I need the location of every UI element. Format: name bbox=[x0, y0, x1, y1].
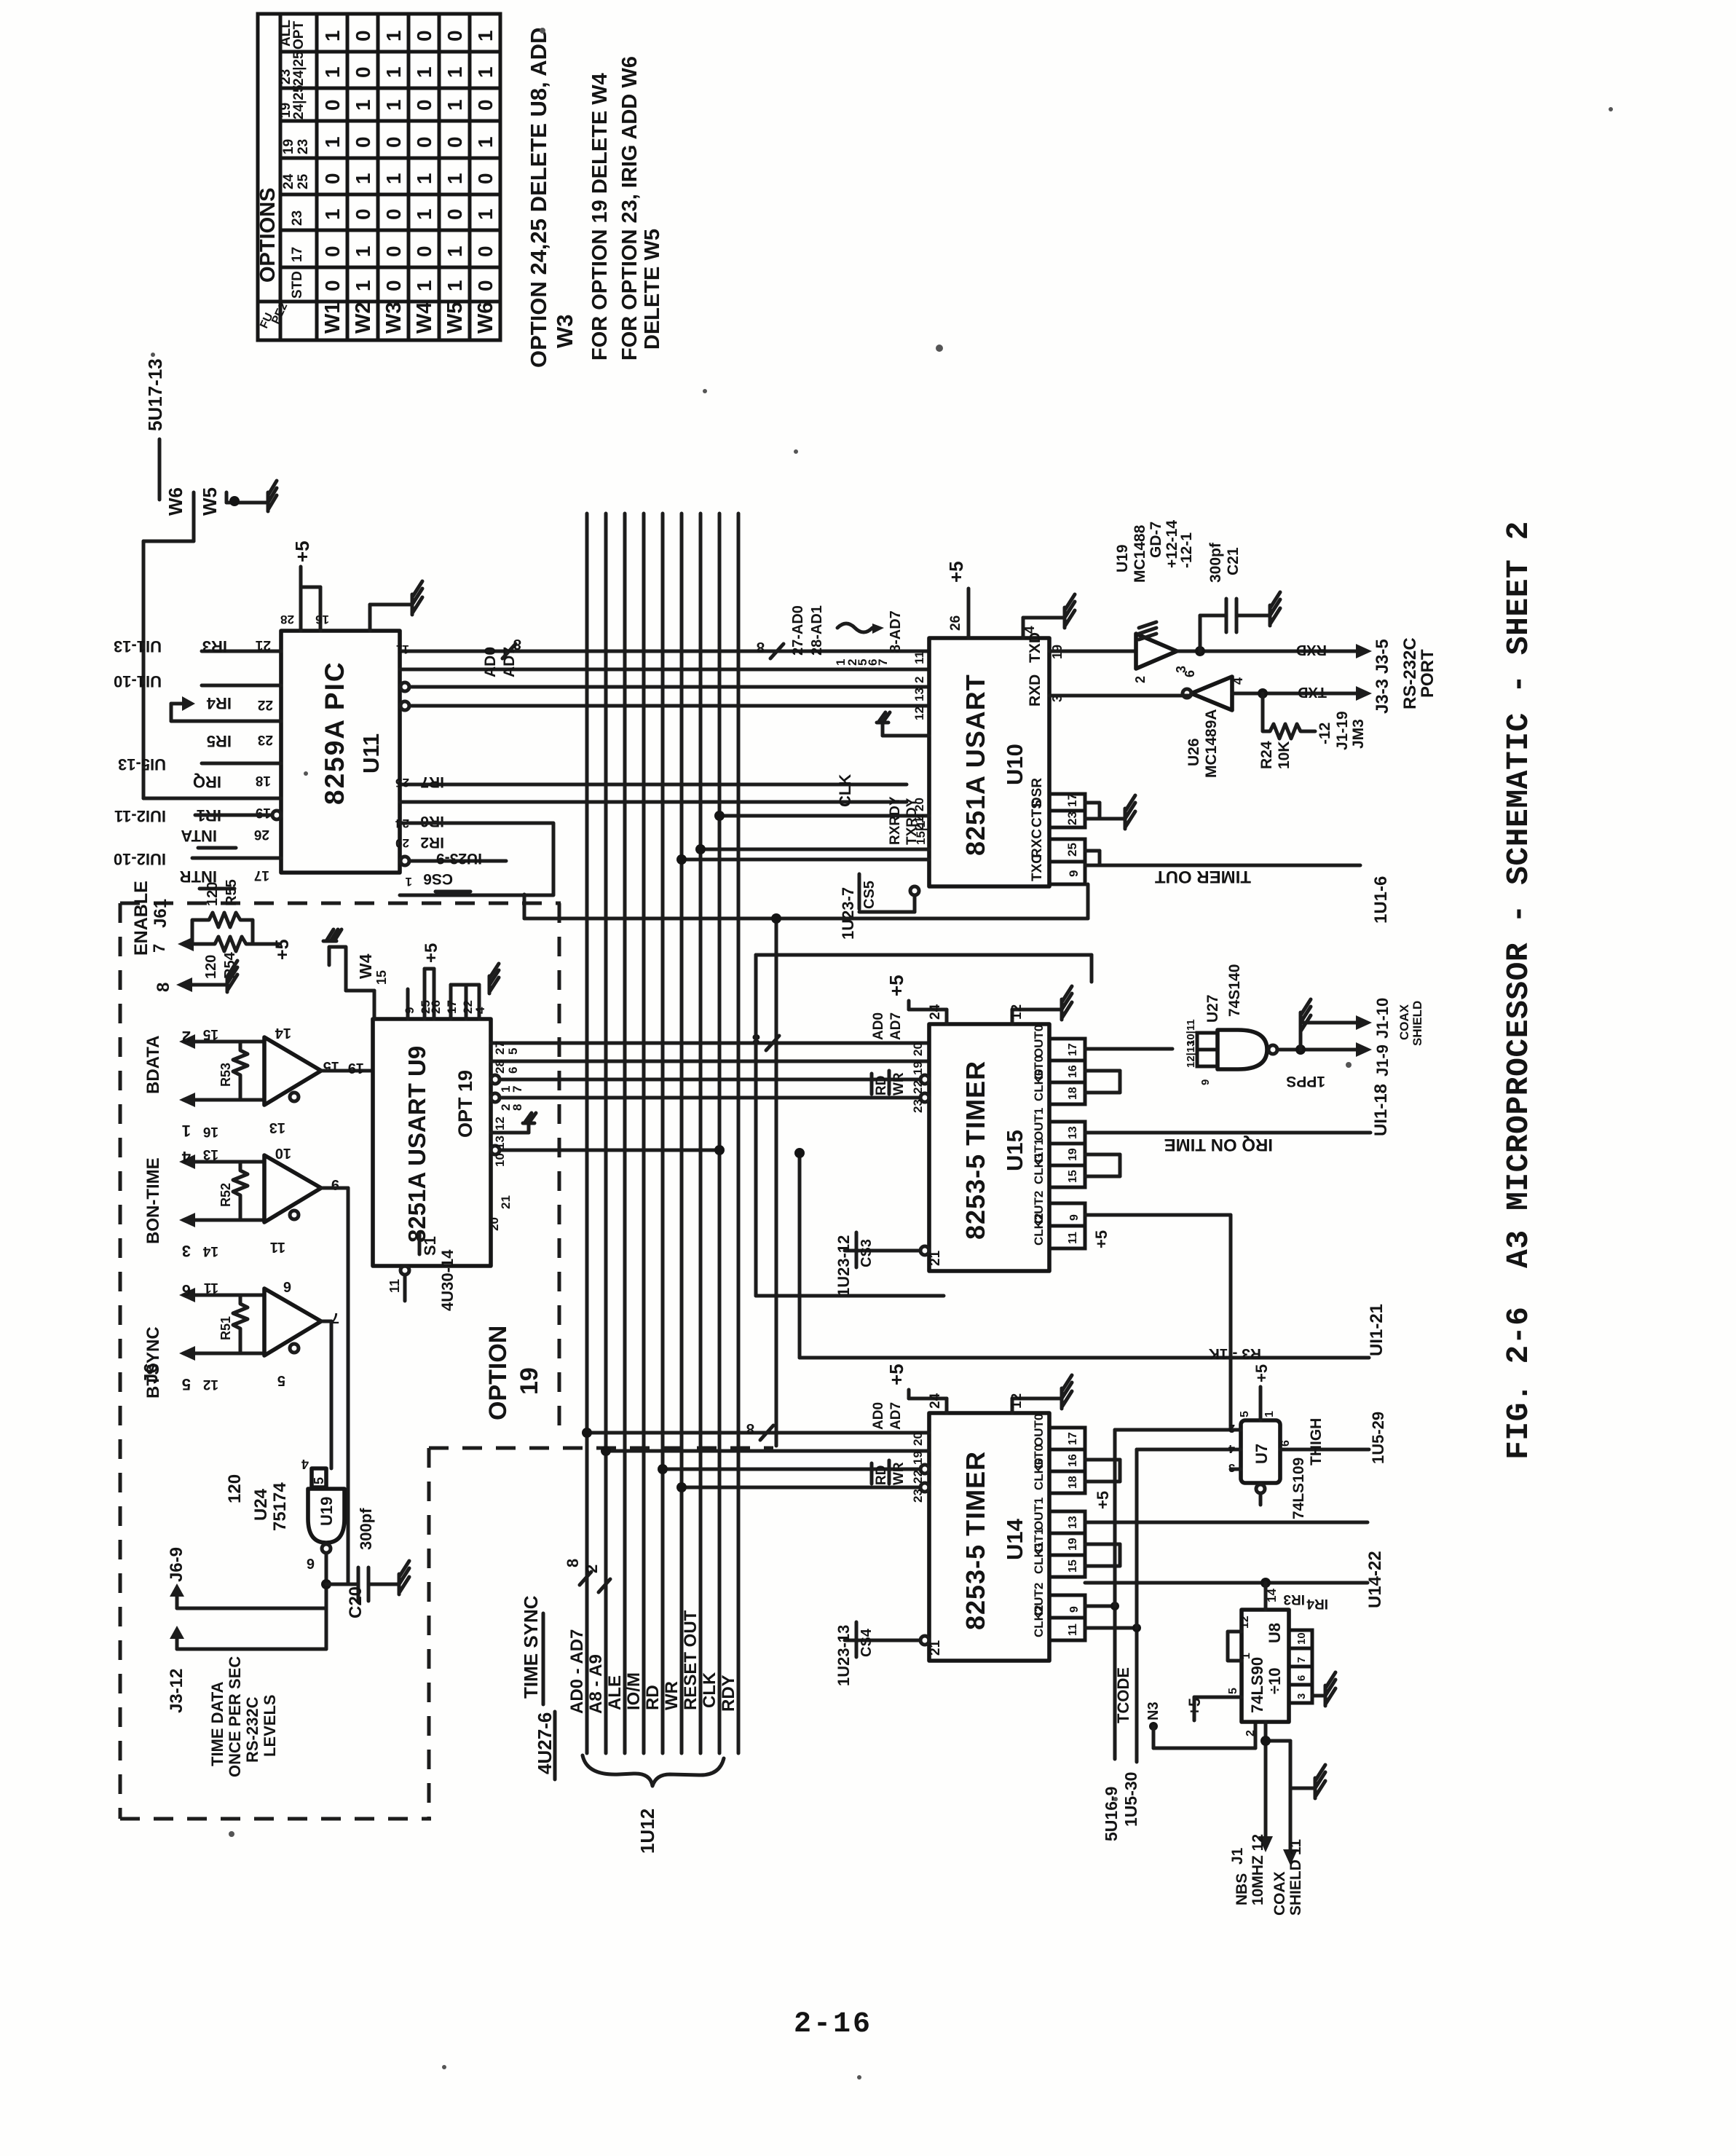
bus line AD0-AD7 bbox=[585, 514, 589, 1753]
wire +5 to U11 pins 28/16 bbox=[301, 567, 320, 631]
svg-text:1: 1 bbox=[382, 66, 405, 78]
J6 pin 5 arrow bbox=[179, 1346, 264, 1361]
svg-text:UI1-18: UI1-18 bbox=[1371, 1084, 1391, 1136]
note TIME DATA block bbox=[208, 1656, 279, 1777]
svg-text:OUT0: OUT0 bbox=[1032, 1414, 1046, 1447]
svg-text:4: 4 bbox=[301, 1457, 309, 1471]
svg-text:÷10: ÷10 bbox=[1266, 1667, 1284, 1694]
bubble U24b bbox=[290, 1211, 299, 1219]
svg-text:5: 5 bbox=[277, 1372, 285, 1388]
pin CS4 wire bbox=[845, 1636, 929, 1645]
svg-text:24: 24 bbox=[928, 1004, 943, 1020]
svg-text:1: 1 bbox=[321, 136, 344, 148]
svg-text:19: 19 bbox=[911, 1061, 925, 1075]
svg-text:26: 26 bbox=[429, 1000, 443, 1014]
svg-text:THIGH: THIGH bbox=[1308, 1418, 1325, 1465]
wire GT1 CLK1 loop bbox=[1085, 1544, 1120, 1566]
U8 right pin cells bbox=[1289, 1630, 1312, 1703]
svg-text:RS-232C: RS-232C bbox=[1400, 637, 1420, 709]
wire DSR CTS to ground bbox=[1085, 803, 1125, 819]
svg-text:0: 0 bbox=[382, 136, 405, 148]
wire RXC TXC loop down bbox=[524, 884, 1088, 918]
svg-text:22: 22 bbox=[258, 697, 273, 712]
svg-text:8253-5 TIMER: 8253-5 TIMER bbox=[960, 1061, 990, 1240]
svg-text:0: 0 bbox=[474, 173, 497, 184]
junction dot W5 bbox=[229, 496, 240, 506]
svg-text:16: 16 bbox=[203, 1124, 218, 1139]
junction bbox=[1295, 1044, 1306, 1055]
U14 right pin cells group2 bbox=[1032, 1583, 1085, 1640]
svg-text:+5: +5 bbox=[272, 939, 293, 960]
svg-text:U24: U24 bbox=[251, 1488, 271, 1521]
wire RXD from U26 buffer bbox=[1049, 694, 1190, 698]
svg-text:0: 0 bbox=[413, 99, 435, 111]
svg-text:1U12: 1U12 bbox=[636, 1809, 658, 1854]
svg-text:J1-9: J1-9 bbox=[1373, 1044, 1392, 1077]
svg-text:11: 11 bbox=[387, 1279, 402, 1293]
svg-text:14: 14 bbox=[275, 1025, 291, 1041]
J6 pin 6 arrow bbox=[179, 1288, 264, 1302]
svg-text:OUT0: OUT0 bbox=[1032, 1025, 1046, 1058]
labels J1 NBS 10MHZ 12 bbox=[1229, 1834, 1304, 1916]
svg-text:JM3: JM3 bbox=[1350, 719, 1367, 749]
svg-text:26: 26 bbox=[948, 615, 963, 631]
svg-text:0: 0 bbox=[443, 30, 466, 42]
wire IR2 loop bbox=[400, 823, 553, 895]
svg-text:11: 11 bbox=[203, 1280, 218, 1295]
bus line RD bbox=[661, 514, 665, 1753]
wire U7 out bbox=[1280, 1448, 1369, 1452]
svg-text:PORT: PORT bbox=[1418, 649, 1437, 698]
svg-text:+5: +5 bbox=[1252, 1364, 1271, 1382]
svg-text:U14: U14 bbox=[1002, 1518, 1027, 1560]
svg-text:W5: W5 bbox=[199, 487, 221, 516]
svg-text:6: 6 bbox=[283, 1278, 291, 1294]
svg-text:4: 4 bbox=[1228, 1442, 1235, 1455]
U15 right pin cells group1 bbox=[1032, 1108, 1085, 1187]
svg-text:CS5: CS5 bbox=[861, 881, 877, 909]
svg-text:7: 7 bbox=[1295, 1657, 1308, 1663]
buffer U19 MC1488 bbox=[1136, 634, 1177, 669]
svg-text:15: 15 bbox=[1067, 1559, 1079, 1573]
svg-text:OPTIONS: OPTIONS bbox=[256, 187, 280, 283]
wire GT1 CLK1 loop bbox=[1085, 1154, 1120, 1176]
svg-text:UI1-10: UI1-10 bbox=[114, 672, 162, 691]
svg-text:CLK0: CLK0 bbox=[1032, 1069, 1046, 1101]
U27 pin labels bbox=[1185, 1019, 1212, 1085]
svg-text:11: 11 bbox=[270, 1239, 285, 1255]
net CS4 label overlined bbox=[856, 1622, 875, 1657]
wire CLK to U10 pin 20 bbox=[719, 814, 929, 818]
svg-text:12: 12 bbox=[493, 1117, 507, 1130]
wire enable arrow bbox=[178, 937, 194, 951]
wire U24a out to U9 bbox=[321, 1069, 373, 1073]
svg-text:IUI2-11: IUI2-11 bbox=[114, 807, 166, 825]
svg-text:ONCE PER SEC: ONCE PER SEC bbox=[226, 1656, 244, 1777]
svg-text:19: 19 bbox=[1067, 1538, 1079, 1551]
svg-text:BON-TIME: BON-TIME bbox=[143, 1157, 163, 1244]
svg-text:74S140: 74S140 bbox=[1226, 964, 1243, 1017]
svg-text:19: 19 bbox=[516, 1367, 543, 1395]
wire U27 out to J1-9 bbox=[1277, 1048, 1356, 1052]
bubble U24c bbox=[290, 1344, 299, 1353]
svg-text:13: 13 bbox=[1067, 1516, 1079, 1529]
svg-text:8: 8 bbox=[746, 1420, 754, 1436]
svg-text:4U27-6: 4U27-6 bbox=[534, 1712, 556, 1774]
svg-text:J1-10: J1-10 bbox=[1373, 998, 1392, 1039]
junction dot bbox=[658, 1464, 668, 1474]
label COAX SHIELD bbox=[1397, 1001, 1424, 1046]
svg-text:A8 - A9: A8 - A9 bbox=[586, 1654, 606, 1714]
junction C21 bbox=[1195, 646, 1205, 656]
svg-text:12: 12 bbox=[1239, 1616, 1251, 1629]
svg-text:15: 15 bbox=[374, 970, 389, 985]
wire U11 pin 27 bbox=[400, 668, 929, 672]
ground at enable wire bbox=[227, 961, 237, 992]
svg-text:R55: R55 bbox=[224, 879, 240, 906]
svg-text:18: 18 bbox=[256, 773, 271, 788]
buffer U24c triangle bbox=[264, 1289, 321, 1356]
svg-text:19: 19 bbox=[281, 139, 296, 154]
op-amp U9 8251A USART box bbox=[373, 1019, 491, 1266]
svg-text:R24: R24 bbox=[1258, 741, 1275, 769]
U9 top pin stubs bbox=[408, 969, 479, 1019]
svg-text:CLK: CLK bbox=[836, 774, 854, 807]
wire U11 pin 2 with bubble bbox=[401, 701, 929, 710]
svg-text:FOR OPTION 23, IRIG ADD W6: FOR OPTION 23, IRIG ADD W6 bbox=[618, 56, 642, 361]
bus width 8 marker right of bus bbox=[752, 1031, 779, 1050]
net CS5 label overlined bbox=[859, 874, 877, 909]
svg-text:1: 1 bbox=[443, 173, 466, 184]
svg-text:TXD: TXD bbox=[1298, 684, 1327, 700]
svg-text:1: 1 bbox=[413, 208, 435, 220]
capacitor C20 bbox=[358, 1567, 399, 1601]
svg-text:22: 22 bbox=[911, 1080, 925, 1094]
svg-text:1: 1 bbox=[352, 245, 374, 257]
svg-text:26: 26 bbox=[254, 827, 269, 842]
svg-text:0: 0 bbox=[413, 30, 435, 42]
svg-text:23: 23 bbox=[911, 1489, 925, 1503]
svg-text:24|25: 24|25 bbox=[291, 84, 307, 119]
wire U24c out to U19 bbox=[321, 1321, 331, 1468]
svg-text:RDY: RDY bbox=[719, 1675, 738, 1712]
svg-text:1U23-13: 1U23-13 bbox=[835, 1625, 853, 1686]
buffer U26 MC1489A bbox=[1191, 677, 1232, 710]
svg-text:11: 11 bbox=[1067, 1624, 1079, 1636]
svg-text:1U5-30: 1U5-30 bbox=[1121, 1772, 1140, 1827]
svg-text:24|25: 24|25 bbox=[291, 51, 307, 86]
dashed box bottom border bbox=[120, 1817, 431, 1821]
svg-text:J3-12: J3-12 bbox=[167, 1669, 186, 1713]
svg-text:10: 10 bbox=[1295, 1632, 1308, 1645]
ground at W4 bbox=[323, 929, 342, 941]
wire U26 in from port bbox=[1232, 692, 1356, 696]
bus label IO/M overlined bbox=[624, 1672, 644, 1710]
wire IR4 input bbox=[202, 684, 281, 688]
svg-text:8: 8 bbox=[757, 639, 765, 655]
svg-text:SHIELD 11: SHIELD 11 bbox=[1287, 1839, 1304, 1916]
svg-text:MC1488: MC1488 bbox=[1132, 524, 1148, 583]
svg-text:25: 25 bbox=[296, 173, 311, 189]
svg-text:24: 24 bbox=[281, 173, 296, 189]
svg-text:28: 28 bbox=[280, 613, 294, 626]
svg-text:U11: U11 bbox=[358, 733, 384, 774]
svg-text:16: 16 bbox=[1067, 1454, 1079, 1467]
svg-text:RS-232C: RS-232C bbox=[243, 1696, 261, 1763]
svg-text:75174: 75174 bbox=[270, 1482, 290, 1531]
svg-text:DELETE W5: DELETE W5 bbox=[641, 229, 664, 350]
svg-text:19: 19 bbox=[348, 1060, 364, 1076]
svg-text:2-16: 2-16 bbox=[794, 2008, 872, 2041]
svg-text:23: 23 bbox=[258, 732, 273, 747]
svg-text:AD0: AD0 bbox=[482, 647, 499, 677]
svg-text:1: 1 bbox=[321, 66, 344, 78]
wire U10 pin 4 ground bbox=[1023, 618, 1065, 638]
svg-text:IR7: IR7 bbox=[420, 774, 444, 790]
wire IR5 input with arrow bbox=[171, 696, 281, 721]
ground at U9 top bbox=[489, 964, 499, 994]
wire 5U17-13 stub bbox=[158, 439, 162, 500]
svg-text:8: 8 bbox=[564, 1559, 582, 1567]
svg-text:0: 0 bbox=[352, 30, 374, 42]
wire IR0 input bbox=[202, 762, 281, 766]
bus width 2 marker bbox=[583, 1565, 610, 1592]
svg-text:1: 1 bbox=[352, 173, 374, 184]
svg-text:0: 0 bbox=[382, 245, 405, 257]
wire INTA input bbox=[195, 814, 272, 817]
svg-text:2: 2 bbox=[182, 1028, 191, 1046]
svg-text:5: 5 bbox=[506, 1048, 520, 1055]
wire TIMER OUT bbox=[1085, 851, 1360, 865]
U15 right pin cells group2 bbox=[1032, 1191, 1085, 1248]
svg-text:0: 0 bbox=[413, 136, 435, 148]
U14 right pin cells group0 bbox=[1032, 1414, 1085, 1493]
ground at U8 right bbox=[1312, 1672, 1335, 1706]
svg-text:RXD: RXD bbox=[1296, 642, 1327, 658]
svg-text:6: 6 bbox=[1279, 1440, 1292, 1447]
svg-text:RXRDY: RXRDY bbox=[888, 796, 903, 845]
svg-text:6: 6 bbox=[506, 1067, 520, 1074]
wire +5 to U7 bbox=[1259, 1387, 1263, 1420]
svg-text:W2: W2 bbox=[352, 302, 375, 334]
wire TIME SYNC bbox=[553, 1712, 557, 1779]
wire CLK2 bbox=[1085, 1628, 1137, 1762]
junction dot bbox=[1260, 1736, 1271, 1746]
U14 right pin cells group1 bbox=[1032, 1498, 1085, 1577]
svg-text:-12: -12 bbox=[1317, 723, 1333, 744]
J6 pin 4 arrow bbox=[179, 1154, 264, 1169]
node J3-3 J3-5 labels bbox=[1373, 637, 1437, 714]
pin INTA name overlined bbox=[181, 827, 236, 848]
svg-text:W5: W5 bbox=[443, 302, 467, 334]
resistor R55 bbox=[192, 879, 253, 944]
svg-text:CLK1: CLK1 bbox=[1032, 1542, 1046, 1574]
svg-text:4: 4 bbox=[1231, 677, 1245, 685]
svg-text:300pf: 300pf bbox=[1207, 542, 1224, 583]
svg-text:1: 1 bbox=[474, 136, 497, 148]
arrow to J3-5 bbox=[1356, 644, 1372, 658]
svg-text:2: 2 bbox=[912, 677, 926, 683]
wire bus to U14 AD bbox=[587, 1431, 929, 1435]
svg-text:IR2: IR2 bbox=[420, 834, 444, 851]
svg-text:16: 16 bbox=[1067, 1065, 1079, 1078]
bus line CLK bbox=[718, 514, 722, 1753]
svg-text:R3 - 1K: R3 - 1K bbox=[1209, 1345, 1261, 1362]
svg-text:9: 9 bbox=[1068, 1214, 1081, 1221]
arrow coax shield bbox=[1283, 1849, 1298, 1865]
net RD WR labels at U14 bbox=[872, 1460, 907, 1485]
wire U19 out to port bbox=[1177, 650, 1356, 653]
svg-text:17: 17 bbox=[1067, 1043, 1079, 1056]
svg-text:1U5-29: 1U5-29 bbox=[1369, 1412, 1387, 1464]
TIME SYNC underline bbox=[542, 1613, 545, 1704]
table header column option numbers bbox=[278, 20, 311, 299]
junction dot bbox=[771, 913, 781, 924]
svg-text:23: 23 bbox=[296, 139, 311, 154]
svg-text:0: 0 bbox=[413, 245, 435, 257]
svg-text:CTS: CTS bbox=[1030, 800, 1045, 827]
label OPTION 19 bbox=[484, 1326, 543, 1420]
wire OUT1 long line bbox=[1085, 1581, 1368, 1585]
U15 right pin cells group0 bbox=[1032, 1025, 1085, 1104]
pin 12 loop bbox=[1228, 1632, 1242, 1661]
svg-text:CLK2: CLK2 bbox=[1032, 1213, 1046, 1246]
svg-text:WR: WR bbox=[891, 1072, 907, 1095]
junction dot CLK bbox=[714, 811, 725, 821]
arrow NBS 10MHZ bbox=[1258, 1836, 1273, 1852]
U9 right pin numbers bbox=[493, 1041, 524, 1111]
svg-text:5: 5 bbox=[1227, 1688, 1239, 1694]
ground at U11 bbox=[412, 581, 422, 615]
svg-text:+5: +5 bbox=[885, 1364, 907, 1385]
resistor R24 bbox=[1258, 693, 1315, 769]
svg-text:W3: W3 bbox=[552, 315, 577, 349]
svg-text:9: 9 bbox=[1067, 870, 1081, 877]
svg-text:20: 20 bbox=[911, 1042, 925, 1056]
wire coax branch bbox=[1266, 1741, 1290, 1849]
wire J3-12 arrow bbox=[170, 1608, 326, 1649]
svg-text:8253-5 TIMER: 8253-5 TIMER bbox=[960, 1451, 990, 1630]
pin CS3 wire bbox=[845, 1246, 929, 1255]
svg-text:N3: N3 bbox=[1145, 1701, 1161, 1720]
ground at U14 bbox=[1062, 1375, 1072, 1409]
wire IR7 bbox=[400, 783, 907, 787]
wire TXD to U19 buffer bbox=[1049, 650, 1136, 653]
dashed box left border bbox=[119, 903, 122, 1819]
wire U8 pin14 from top bbox=[1264, 1583, 1268, 1610]
svg-text:UI1-13: UI1-13 bbox=[114, 637, 162, 656]
ground at W5 bbox=[256, 481, 277, 511]
svg-text:5U17-13: 5U17-13 bbox=[144, 358, 166, 431]
svg-text:0: 0 bbox=[321, 280, 344, 291]
svg-text:CLK: CLK bbox=[700, 1672, 719, 1708]
svg-text:+5: +5 bbox=[1094, 1491, 1112, 1509]
jumper W4 staple bbox=[329, 947, 374, 1019]
svg-text:10MHZ 12: 10MHZ 12 bbox=[1250, 1834, 1266, 1905]
brace under bus bbox=[583, 1755, 724, 1786]
svg-text:OPT 19: OPT 19 bbox=[454, 1070, 476, 1138]
bubble U26 bbox=[1183, 689, 1191, 698]
svg-text:TIMER OUT: TIMER OUT bbox=[1155, 867, 1251, 886]
svg-text:22: 22 bbox=[911, 1470, 925, 1484]
svg-text:TXD: TXD bbox=[1027, 632, 1043, 663]
svg-text:BDATA: BDATA bbox=[143, 1036, 163, 1094]
svg-text:ENABLE: ENABLE bbox=[131, 881, 151, 956]
svg-text:21: 21 bbox=[928, 1640, 943, 1656]
svg-text:0: 0 bbox=[382, 208, 405, 220]
label 300pf C21 bbox=[1207, 542, 1242, 583]
svg-text:1: 1 bbox=[406, 875, 412, 889]
svg-text:11: 11 bbox=[396, 642, 409, 656]
svg-text:0: 0 bbox=[352, 136, 374, 148]
gate U19 NAND bbox=[301, 1457, 344, 1553]
flipflop U7 74LS109 bbox=[1241, 1420, 1280, 1483]
svg-text:UI5-13: UI5-13 bbox=[118, 755, 166, 774]
svg-text:10K: 10K bbox=[1276, 741, 1293, 769]
wire W6/W5 network bbox=[143, 492, 256, 798]
svg-text:OPT: OPT bbox=[291, 21, 307, 50]
wire U7 inputs bbox=[1115, 1430, 1241, 1628]
svg-text:12|13: 12|13 bbox=[1185, 1040, 1197, 1068]
svg-text:3: 3 bbox=[1295, 1693, 1308, 1699]
svg-text:120: 120 bbox=[225, 1474, 245, 1503]
svg-text:18: 18 bbox=[1067, 1476, 1079, 1489]
svg-text:J61: J61 bbox=[151, 899, 170, 928]
svg-text:15: 15 bbox=[202, 1026, 218, 1042]
svg-text:ALE: ALE bbox=[605, 1675, 625, 1710]
bus label WR overlined bbox=[662, 1679, 682, 1710]
svg-text:9: 9 bbox=[1199, 1079, 1212, 1085]
svg-text:RD: RD bbox=[874, 1076, 889, 1095]
op-amp U10 8251A USART box bbox=[929, 638, 1049, 886]
wire OUT2 to TCODE bbox=[1085, 1606, 1115, 1759]
net CS6 label overlined bbox=[423, 870, 470, 892]
pin S1 stub bbox=[401, 1266, 409, 1301]
wire U14 GT0 +5 bbox=[1085, 1460, 1120, 1482]
svg-text:U26: U26 bbox=[1185, 738, 1202, 766]
net RD WR labels at U15 bbox=[872, 1071, 907, 1095]
svg-text:INTA: INTA bbox=[181, 827, 217, 845]
svg-text:IRQ: IRQ bbox=[193, 773, 221, 791]
svg-text:1U23-12: 1U23-12 bbox=[835, 1235, 853, 1297]
svg-text:1: 1 bbox=[474, 30, 497, 42]
svg-text:LEVELS: LEVELS bbox=[261, 1694, 279, 1757]
svg-text:AD7: AD7 bbox=[888, 1012, 904, 1040]
svg-text:TCODE: TCODE bbox=[1114, 1667, 1132, 1723]
wire U15 pin 12 ground bbox=[1012, 1010, 1062, 1024]
U14 left pin numbers bbox=[911, 1432, 925, 1503]
bus line A8-A9 bbox=[604, 514, 608, 1753]
svg-text:U14-22: U14-22 bbox=[1365, 1551, 1385, 1608]
bus line ALE bbox=[623, 514, 627, 1753]
svg-text:2: 2 bbox=[1228, 1422, 1235, 1434]
svg-text:20: 20 bbox=[395, 836, 409, 850]
U7 bottom bubble bbox=[1256, 1484, 1265, 1505]
resistor R51 bbox=[233, 1295, 248, 1353]
buffer U24a triangle bbox=[264, 1037, 321, 1105]
svg-text:CS6: CS6 bbox=[423, 870, 453, 887]
ground at C20 bbox=[399, 1561, 409, 1594]
wire OUT1 IRQ ON TIME bbox=[1085, 1131, 1370, 1135]
junction dot bbox=[582, 1428, 592, 1438]
net S1 label overlined bbox=[419, 1234, 439, 1256]
svg-text:0: 0 bbox=[474, 245, 497, 257]
net AD0 AD7 labels at U15 bbox=[871, 1012, 904, 1040]
svg-text:4: 4 bbox=[473, 1007, 487, 1014]
svg-text:0: 0 bbox=[321, 173, 344, 184]
svg-text:1: 1 bbox=[443, 66, 466, 78]
svg-text:CLK0: CLK0 bbox=[1032, 1458, 1046, 1490]
